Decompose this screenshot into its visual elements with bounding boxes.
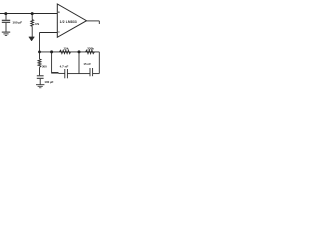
svg-text:330k: 330k (87, 46, 94, 50)
svg-text:15 nF: 15 nF (83, 62, 91, 66)
svg-text:1/2 LM833: 1/2 LM833 (60, 20, 77, 24)
svg-text:4.7 nF: 4.7 nF (60, 64, 69, 68)
svg-text:47k: 47k (35, 23, 40, 26)
svg-text:15k: 15k (63, 46, 68, 50)
svg-text:300: 300 (42, 64, 47, 68)
svg-text:100 µF: 100 µF (44, 80, 53, 84)
svg-text:100 pF: 100 pF (12, 21, 22, 25)
